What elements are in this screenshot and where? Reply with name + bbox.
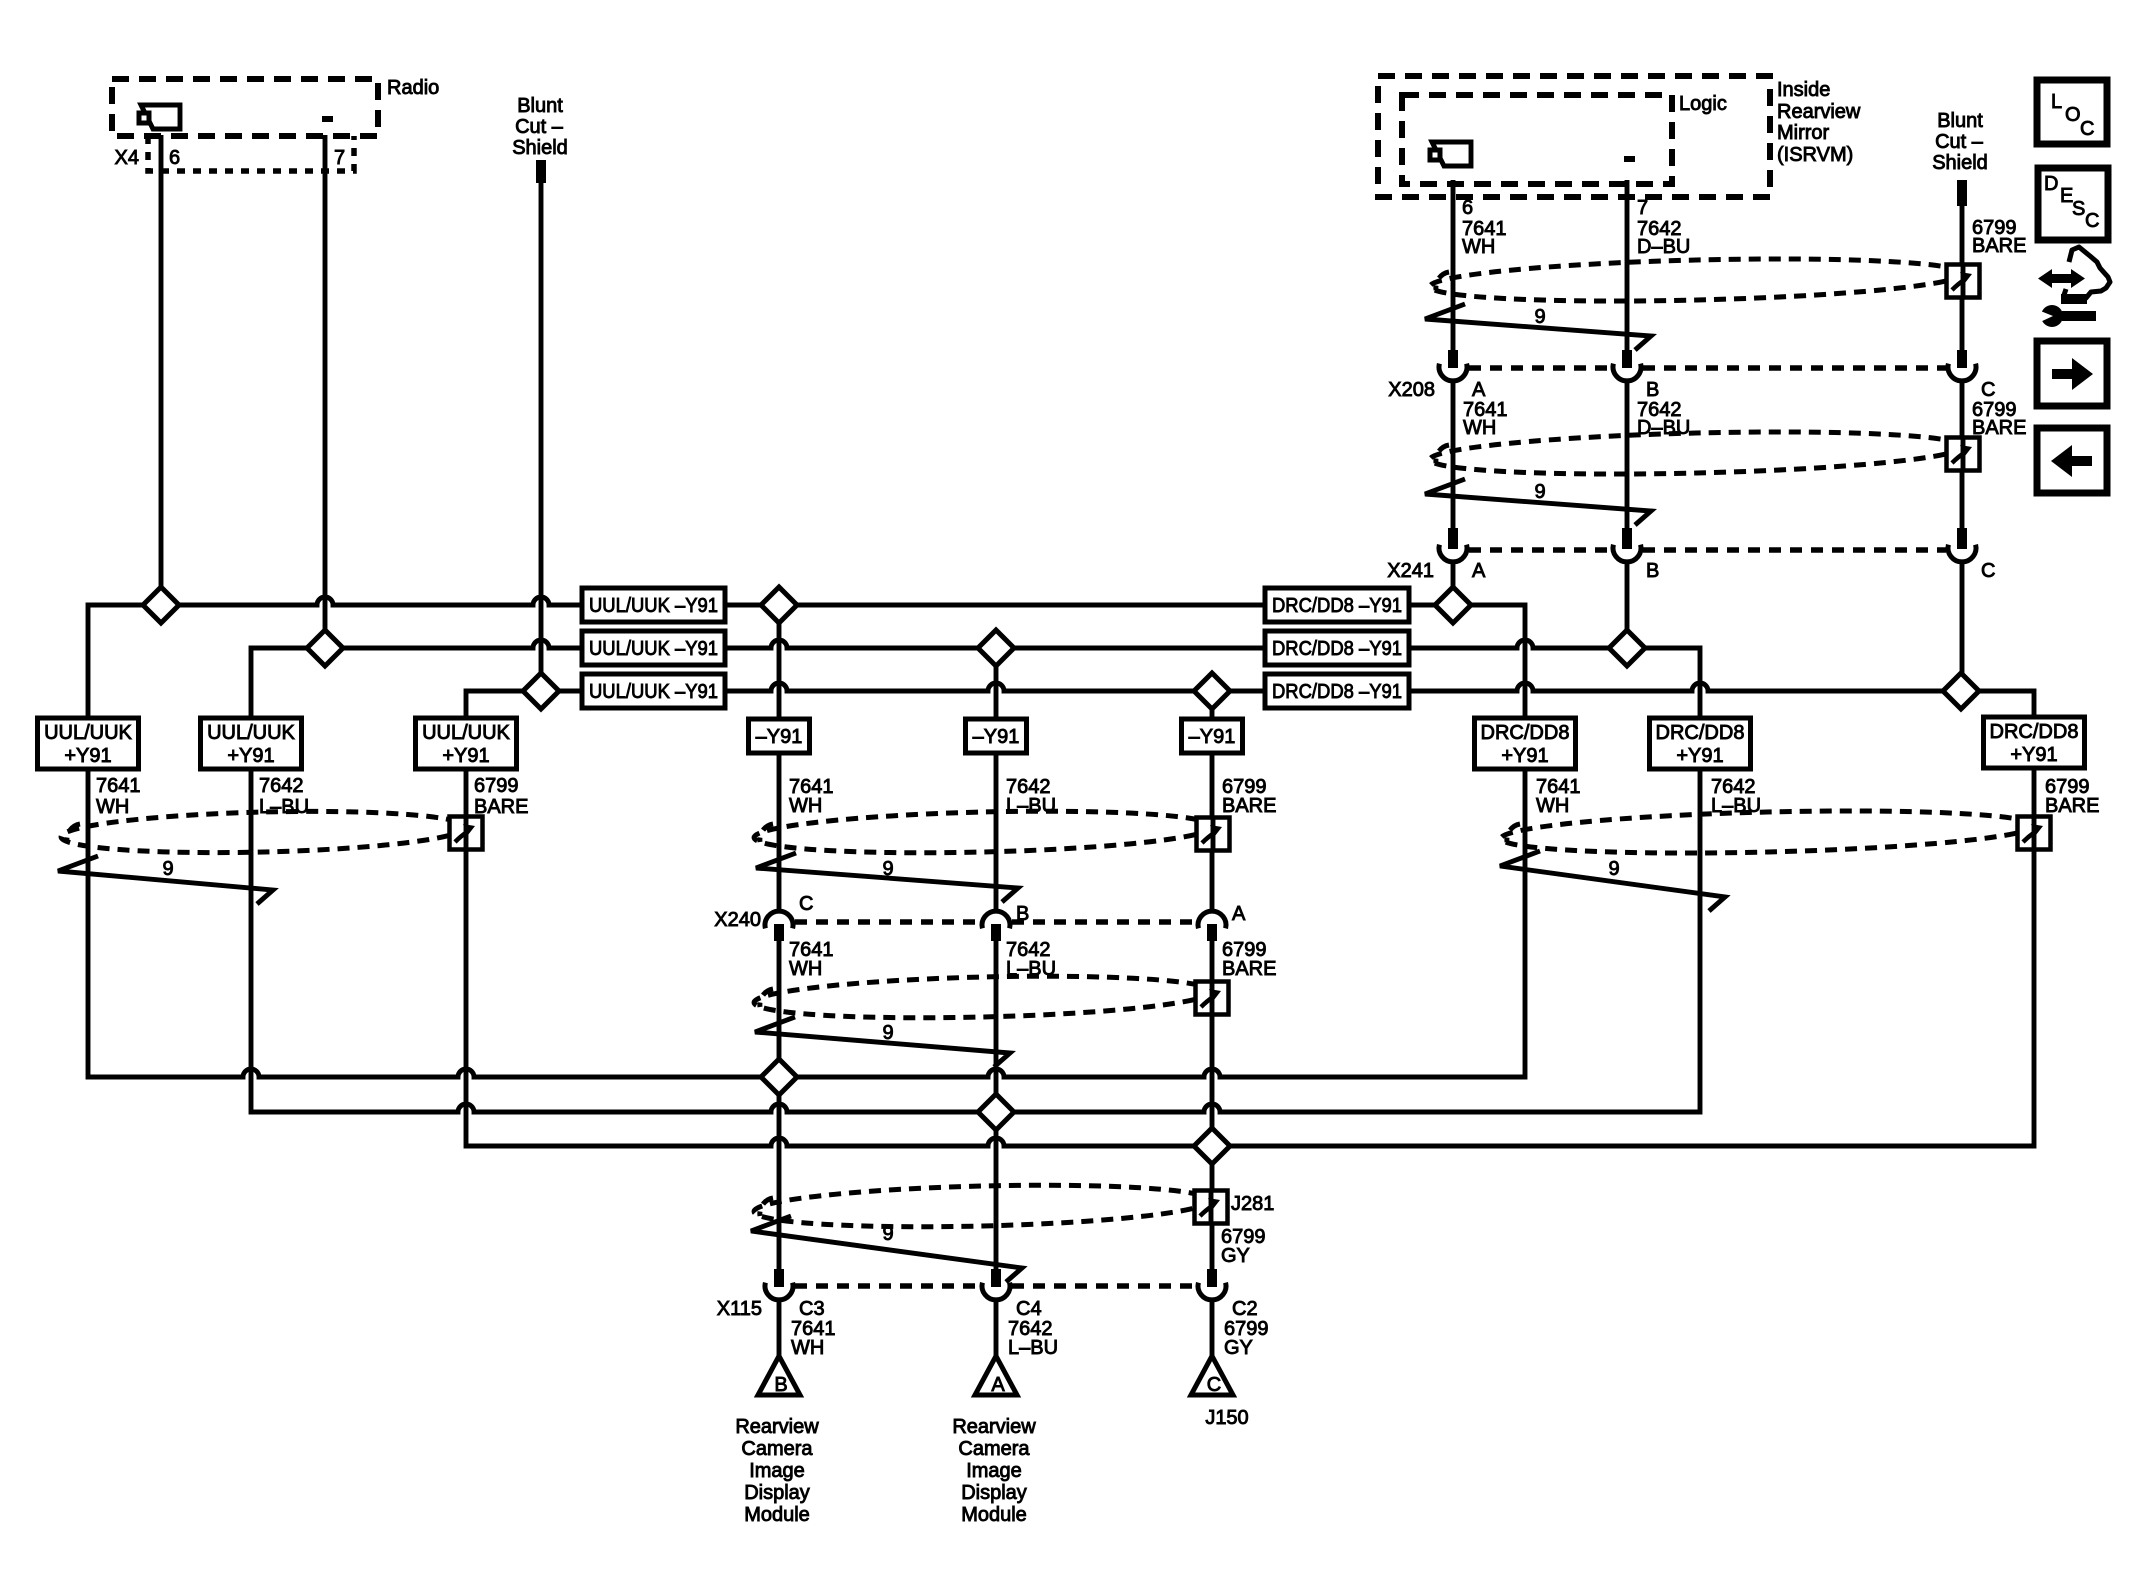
svg-text:X240: X240 [714, 909, 761, 931]
shield drain square middle lower [1196, 982, 1229, 1015]
net label UUL/UUK +Y91 column 1 [38, 718, 139, 769]
minus sign ISRVM [1624, 156, 1635, 162]
connector X240 pin A [1198, 911, 1226, 928]
svg-text:Module: Module [744, 1504, 810, 1526]
svg-text:DRC/DD8 –Y91: DRC/DD8 –Y91 [1272, 681, 1402, 703]
splice diamond row1 X241 A [1435, 587, 1471, 623]
icon box arrow right [2037, 341, 2107, 406]
connector X115 pin C4 [991, 1269, 1001, 1287]
splice diamond row2 middle [978, 630, 1014, 666]
svg-text:Display: Display [961, 1482, 1027, 1504]
shield drain square right section [2018, 817, 2051, 850]
connector X208 pin B [1622, 350, 1632, 368]
svg-text:+Y91: +Y91 [442, 745, 489, 767]
bus row 1 UUL/UUK -Y91 [88, 597, 1525, 718]
svg-text:+Y91: +Y91 [1501, 745, 1548, 767]
splice diamond row4 [761, 1059, 797, 1095]
svg-text:BARE: BARE [474, 796, 528, 818]
wire X240 A through J281 to X115 C2 [1210, 941, 1215, 1269]
svg-text:DRC/DD8: DRC/DD8 [1656, 722, 1745, 744]
wire X241 B to splice row 2 [1625, 560, 1630, 648]
splice diamond row5 [978, 1094, 1014, 1130]
svg-text:Shield: Shield [512, 137, 568, 159]
svg-text:WH: WH [1536, 795, 1569, 817]
svg-text:Logic: Logic [1679, 93, 1727, 115]
connector X115 pin C3 [774, 1269, 784, 1287]
svg-text:Cut –: Cut – [1935, 131, 1984, 153]
svg-text:UUL/UUK: UUL/UUK [422, 722, 510, 744]
svg-text:7: 7 [1637, 197, 1648, 219]
svg-text:L–BU: L–BU [1008, 1337, 1058, 1359]
svg-text:+Y91: +Y91 [227, 745, 274, 767]
svg-text:A: A [1472, 560, 1486, 582]
svg-text:Camera: Camera [741, 1438, 813, 1460]
net label DRC/DD8 -Y91 row1 [1265, 588, 1409, 622]
svg-text:BARE: BARE [1222, 958, 1276, 980]
svg-text:L: L [2051, 91, 2062, 113]
wire X241 C to splice row 3 [1960, 560, 1965, 691]
svg-text:BARE: BARE [2045, 795, 2099, 817]
svg-text:L–BU: L–BU [1006, 795, 1056, 817]
net label DRC/DD8 +Y91 column 2 [1650, 718, 1751, 769]
svg-text:S: S [2072, 198, 2085, 220]
svg-text:9: 9 [1534, 481, 1545, 503]
svg-text:C: C [1981, 560, 1995, 582]
svg-text:6: 6 [169, 147, 180, 169]
twisted pair marker ISRVM lower [1430, 426, 1964, 479]
svg-text:UUL/UUK –Y91: UUL/UUK –Y91 [589, 638, 718, 660]
connector X241 pin B [1622, 528, 1632, 549]
svg-text:C: C [799, 893, 813, 915]
svg-text:UUL/UUK –Y91: UUL/UUK –Y91 [589, 681, 718, 703]
svg-text:L–BU: L–BU [1711, 795, 1761, 817]
svg-text:9: 9 [882, 858, 893, 880]
svg-text:DRC/DD8: DRC/DD8 [1481, 722, 1570, 744]
twisted pair marker left section [61, 807, 467, 857]
splice diamond row1 middle [761, 587, 797, 623]
svg-text:B: B [1646, 560, 1659, 582]
off-page triangle C [1191, 1356, 1233, 1395]
minus sign radio [322, 116, 333, 122]
svg-text:X208: X208 [1388, 379, 1435, 401]
off-page triangle A [975, 1356, 1017, 1395]
connector X241 dashed line [1469, 547, 1611, 553]
svg-text:Cut –: Cut – [515, 116, 564, 138]
svg-text:J281: J281 [1231, 1193, 1274, 1215]
wire X115 C3 to triangle B [777, 1300, 782, 1357]
shield drain square middle upper [1197, 818, 1230, 851]
svg-text:Shield: Shield [1932, 152, 1988, 174]
svg-text:6: 6 [1462, 197, 1473, 219]
svg-text:WH: WH [789, 795, 822, 817]
net label DRC/DD8 -Y91 row3 [1265, 674, 1409, 708]
connector X241 pin C [1957, 528, 1967, 549]
svg-text:Inside: Inside [1777, 79, 1830, 101]
svg-text:B: B [1646, 379, 1659, 401]
twisted pair marker middle upper [754, 806, 1214, 857]
svg-text:WH: WH [791, 1337, 824, 1359]
component ISRVM outer dashed box [1378, 76, 1770, 197]
net label UUL/UUK -Y91 row1 [582, 588, 725, 622]
svg-text:UUL/UUK: UUL/UUK [44, 722, 132, 744]
wire row1 to -Y91 box column 1 [777, 605, 782, 719]
svg-text:Camera: Camera [958, 1438, 1030, 1460]
svg-text:B: B [774, 1374, 787, 1396]
svg-text:Radio: Radio [387, 77, 439, 99]
svg-text:X115: X115 [717, 1298, 762, 1320]
svg-text:BARE: BARE [1222, 795, 1276, 817]
svg-text:6799: 6799 [474, 775, 519, 797]
svg-text:DRC/DD8 –Y91: DRC/DD8 –Y91 [1272, 595, 1402, 617]
splice diamond row2 radio [307, 630, 343, 666]
speaker icon radio [139, 105, 180, 129]
svg-text:D: D [2044, 173, 2058, 195]
wire row2 to -Y91 box column 2 [994, 648, 999, 719]
svg-text:C4: C4 [1016, 1298, 1042, 1320]
svg-text:J150: J150 [1205, 1407, 1248, 1429]
bus row 4 DRC/DD8 lower [88, 769, 1525, 1077]
bus row 5 DRC/DD8 lower [251, 769, 1700, 1112]
net label -Y91 column 2 [966, 719, 1027, 753]
svg-text:Rearview: Rearview [1777, 101, 1861, 123]
net label -Y91 column 3 [1182, 719, 1243, 753]
bus row 3 UUL/UUK -Y91 [466, 683, 2034, 718]
svg-text:Image: Image [749, 1460, 805, 1482]
svg-text:9: 9 [162, 858, 173, 880]
svg-text:WH: WH [1462, 236, 1495, 258]
wire -Y91 box 1 to X240 C [777, 753, 782, 911]
off-page triangle B [758, 1356, 800, 1395]
svg-text:DRC/DD8: DRC/DD8 [1990, 721, 2079, 743]
twisted pair marker right section [1501, 805, 2035, 858]
svg-text:7641: 7641 [96, 775, 141, 797]
svg-text:9: 9 [882, 1223, 893, 1245]
wire blunt cut shield right to X208 C [1957, 180, 1967, 206]
svg-text:Module: Module [961, 1504, 1027, 1526]
svg-text:+Y91: +Y91 [2010, 744, 2057, 766]
svg-text:7642: 7642 [259, 775, 304, 797]
splice diamond row2 X241 B [1609, 630, 1645, 666]
svg-text:WH: WH [789, 958, 822, 980]
icon hand with double arrow and wrench [2038, 247, 2110, 327]
svg-text:C: C [1981, 379, 1995, 401]
net label DRC/DD8 +Y91 column 1 [1475, 718, 1576, 769]
wire X241 A to splice row 1 [1451, 560, 1456, 605]
shield drain square ISRVM lower [1947, 438, 1980, 471]
svg-text:GY: GY [1224, 1337, 1253, 1359]
net label -Y91 column 1 [749, 719, 810, 753]
connector X240 pin B [982, 911, 1010, 928]
svg-text:O: O [2065, 104, 2081, 126]
svg-text:A: A [1472, 379, 1486, 401]
svg-text:9: 9 [882, 1022, 893, 1044]
svg-text:UUL/UUK: UUL/UUK [207, 722, 295, 744]
splice J281 [1195, 1191, 1228, 1224]
svg-text:BARE: BARE [1972, 235, 2026, 257]
net label DRC/DD8 +Y91 column 3 [1984, 717, 2085, 768]
svg-text:C: C [2085, 210, 2099, 232]
net label UUL/UUK -Y91 row3 [582, 674, 725, 708]
svg-text:Blunt: Blunt [1937, 110, 1983, 132]
svg-text:–Y91: –Y91 [1189, 726, 1236, 748]
svg-text:Mirror: Mirror [1777, 122, 1830, 144]
splice diamond row6 [1194, 1128, 1230, 1164]
connector X240 pin C [765, 911, 793, 928]
wire blunt cut shield left to splice row 3 [536, 160, 546, 183]
net label UUL/UUK +Y91 column 2 [201, 718, 302, 769]
connector X115 pin C2 [1207, 1269, 1217, 1287]
connector X208 pin C [1957, 350, 1967, 368]
speaker icon ISRVM [1430, 142, 1471, 166]
svg-text:GY: GY [1221, 1245, 1250, 1267]
svg-text:C3: C3 [799, 1298, 825, 1320]
icon box DESC [2038, 168, 2108, 240]
twisted pair marker middle lower [754, 971, 1213, 1022]
svg-text:L–BU: L–BU [1006, 958, 1056, 980]
wire from radio pin 6 to splice row 1 [159, 135, 164, 605]
svg-text:9: 9 [1534, 306, 1545, 328]
wire from radio pin 7 to splice row 2 [323, 135, 328, 648]
svg-text:–Y91: –Y91 [756, 726, 803, 748]
svg-text:9: 9 [1608, 858, 1619, 880]
svg-text:A: A [991, 1374, 1005, 1396]
svg-text:–Y91: –Y91 [973, 726, 1020, 748]
svg-text:Image: Image [966, 1460, 1022, 1482]
net label UUL/UUK +Y91 column 3 [416, 718, 517, 769]
connector X208 pin A [1448, 350, 1458, 368]
svg-text:BARE: BARE [1972, 417, 2026, 439]
twisted pair marker ISRVM upper [1430, 253, 1964, 306]
svg-text:L–BU: L–BU [259, 796, 309, 818]
connector X240 dashed line [795, 919, 980, 925]
shield drain square ISRVM upper [1947, 265, 1980, 298]
splice diamond row1 radio [143, 587, 179, 623]
wire X208 C to X241 C [1960, 380, 1965, 528]
svg-text:Blunt: Blunt [517, 95, 563, 117]
svg-text:Rearview: Rearview [735, 1416, 819, 1438]
wire X208 A to X241 A [1451, 380, 1456, 528]
svg-text:DRC/DD8 –Y91: DRC/DD8 –Y91 [1272, 638, 1402, 660]
svg-text:UUL/UUK –Y91: UUL/UUK –Y91 [589, 595, 718, 617]
svg-text:C: C [2080, 118, 2094, 140]
svg-text:C: C [1207, 1374, 1221, 1396]
connector X241 pin A [1448, 528, 1458, 549]
svg-text:A: A [1232, 903, 1246, 925]
wire -Y91 box 2 to X240 B [994, 753, 999, 911]
splice diamond row3 X241 C [1943, 673, 1979, 709]
bus row 6 DRC/DD8 lower [466, 769, 2034, 1146]
splice diamond row3 shield [523, 673, 559, 709]
shield drain square left section [450, 817, 483, 850]
svg-text:D–BU: D–BU [1637, 417, 1690, 439]
wire X208 B to X241 B [1625, 380, 1630, 528]
net label UUL/UUK -Y91 row2 [582, 631, 725, 665]
net label DRC/DD8 -Y91 row2 [1265, 631, 1409, 665]
svg-text:Display: Display [744, 1482, 810, 1504]
svg-text:X4: X4 [115, 147, 139, 169]
svg-text:Rearview: Rearview [952, 1416, 1036, 1438]
icon box arrow left [2037, 428, 2107, 493]
wire X115 C2 to triangle C [1210, 1300, 1215, 1357]
svg-text:(ISRVM): (ISRVM) [1777, 144, 1853, 166]
svg-text:B: B [1016, 903, 1029, 925]
twisted pair marker bottom [754, 1180, 1211, 1231]
component Radio dashed box [112, 79, 378, 136]
wire ISRVM pin 6 to X208 A [1451, 180, 1456, 352]
wire ISRVM pin 7 to X208 B [1625, 180, 1630, 352]
connector X208 dashed line [1469, 365, 1611, 371]
wire X115 C4 to triangle A [994, 1300, 999, 1357]
splice diamond row3 middle [1194, 673, 1230, 709]
connector X4 dotted box [148, 136, 354, 171]
connector X115 dashed line [795, 1283, 980, 1289]
component ISRVM logic dashed box [1402, 95, 1672, 184]
svg-text:WH: WH [1463, 417, 1496, 439]
wire X240 C to X115 C3 [777, 941, 782, 1269]
svg-text:X241: X241 [1387, 560, 1434, 582]
svg-text:WH: WH [96, 796, 129, 818]
wire X240 B to X115 C4 [994, 941, 999, 1269]
wire -Y91 box 3 to X240 A [1210, 753, 1215, 911]
svg-text:+Y91: +Y91 [64, 745, 111, 767]
bus row 2 UUL/UUK -Y91 [251, 640, 1700, 718]
wire row3 to -Y91 box column 3 [1210, 691, 1215, 719]
svg-text:7: 7 [334, 147, 345, 169]
svg-text:D–BU: D–BU [1637, 236, 1690, 258]
icon box LOC [2037, 80, 2107, 144]
svg-text:C2: C2 [1232, 1298, 1258, 1320]
svg-text:+Y91: +Y91 [1676, 745, 1723, 767]
